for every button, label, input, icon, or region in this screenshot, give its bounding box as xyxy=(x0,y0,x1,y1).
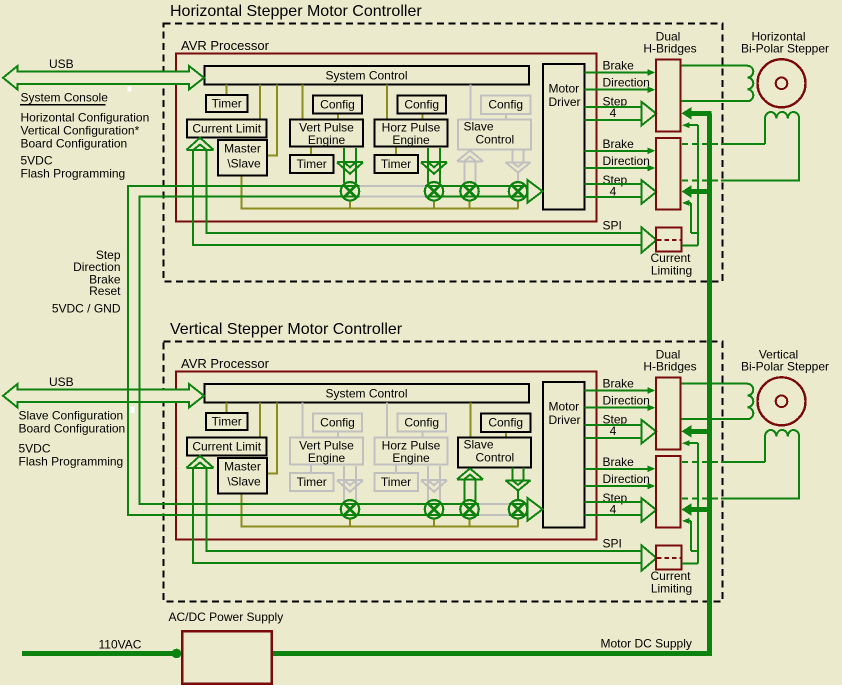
box Dual H-Bridge 2 xyxy=(656,456,681,528)
thick DC supply tee to H-Bridge 2 xyxy=(689,507,712,512)
svg-text:System Control: System Control xyxy=(325,387,407,401)
USB arrow xyxy=(3,66,204,90)
box AC/DC Power Supply xyxy=(182,631,272,684)
wire Config to Vert Pulse Engine xyxy=(337,114,339,120)
wire System Control to Timer xyxy=(226,403,228,414)
svg-text:Flash Programming: Flash Programming xyxy=(19,455,124,469)
arrow Vert Pulse Engine to mixer 1 xyxy=(343,148,345,183)
svg-text:Config: Config xyxy=(320,98,355,112)
svg-text:Flash Programming: Flash Programming xyxy=(21,167,126,181)
box Dual H-Bridge 1 xyxy=(656,378,681,450)
box Config (vert) xyxy=(313,96,362,114)
wire Direction xyxy=(585,407,650,409)
svg-text:Config: Config xyxy=(320,416,355,430)
svg-text:Current Limit: Current Limit xyxy=(192,122,261,136)
wire System Control to Horz Pulse Engine xyxy=(386,403,388,438)
wire System Control to Master/Slave xyxy=(267,403,277,474)
svg-text:Timer: Timer xyxy=(212,97,242,111)
wire Brake xyxy=(585,390,650,392)
svg-text:Slave: Slave xyxy=(464,438,494,452)
svg-text:AVR Processor: AVR Processor xyxy=(181,356,270,371)
artifact mark 2 xyxy=(130,407,135,414)
svg-text:Control: Control xyxy=(476,133,515,147)
thick DC supply tee to H-Bridge 1 xyxy=(689,111,712,116)
wire H-Bridge 1 to winding A top xyxy=(681,383,748,385)
svg-text:H-Bridges: H-Bridges xyxy=(643,42,696,56)
svg-text:5VDC / GND: 5VDC / GND xyxy=(52,302,121,316)
wire System Control to Master/Slave xyxy=(267,85,277,156)
svg-text:Engine: Engine xyxy=(308,133,346,147)
svg-text:5VDC: 5VDC xyxy=(21,154,53,168)
box Config (slave) xyxy=(481,414,531,432)
winding A coil xyxy=(747,384,753,419)
wire System Control to Vert Pulse Engine xyxy=(301,403,303,438)
box Config (horz) xyxy=(398,414,447,432)
arrow Horz Pulse Engine to mixer 2 xyxy=(427,466,429,501)
svg-text:Bi-Polar Stepper: Bi-Polar Stepper xyxy=(741,42,829,56)
svg-text:4: 4 xyxy=(610,106,617,120)
svg-text:Driver: Driver xyxy=(549,95,581,109)
arrow Vert Pulse Engine to mixer 1 xyxy=(343,466,345,501)
box Slave Control xyxy=(458,438,531,468)
box Slave Control xyxy=(458,120,531,150)
box Timer (horz pulse) xyxy=(375,473,419,491)
svg-text:Brake: Brake xyxy=(603,59,635,73)
current limiting feedback to H-Bridge 2 xyxy=(688,520,691,522)
arrow Step into H-Bridge xyxy=(642,420,657,443)
svg-text:4: 4 xyxy=(610,184,617,198)
svg-text:Engine: Engine xyxy=(308,451,346,465)
box Vert Pulse Engine xyxy=(290,120,363,147)
box Current Limiting xyxy=(656,546,682,570)
winding B coil xyxy=(765,430,799,498)
svg-text:Master: Master xyxy=(224,142,261,156)
arrow Horz Pulse Engine to mixer 2 xyxy=(427,148,429,183)
svg-text:Direction: Direction xyxy=(603,394,650,408)
arrow into Current Limit xyxy=(187,138,214,150)
wire mixer stub 4 xyxy=(517,518,519,527)
mixer node 2 xyxy=(425,182,443,200)
svg-text:Config: Config xyxy=(488,98,523,112)
mixer node 4 xyxy=(509,500,527,518)
wire mixer stub 3 xyxy=(469,200,471,209)
svg-text:110VAC: 110VAC xyxy=(99,638,142,652)
inter-controller bus wire B xyxy=(140,197,528,504)
arrow mixer bus into Motor Driver xyxy=(528,498,543,521)
box Horz Pulse Engine xyxy=(375,438,448,465)
svg-text:Current Limit: Current Limit xyxy=(192,440,261,454)
wire H-Bridge 1 to winding A top xyxy=(681,65,748,67)
svg-text:Vertical Stepper Motor Control: Vertical Stepper Motor Controller xyxy=(170,321,403,338)
svg-text:System Console: System Console xyxy=(21,91,109,105)
svg-text:Timer: Timer xyxy=(297,475,327,489)
svg-text:Board Configuration: Board Configuration xyxy=(19,422,126,436)
svg-text:Slave Configuration: Slave Configuration xyxy=(19,409,124,423)
svg-text:Config: Config xyxy=(404,416,439,430)
arrow Slave Control to mixer 4 xyxy=(511,468,513,481)
svg-text:Limiting: Limiting xyxy=(651,264,692,278)
svg-text:Master: Master xyxy=(224,460,261,474)
wire mixer stub 2 xyxy=(433,518,435,527)
svg-text:H-Bridges: H-Bridges xyxy=(643,360,696,374)
box Config (slave) xyxy=(481,96,531,114)
wire mixer stub 2 xyxy=(433,200,435,209)
wire Brake xyxy=(585,468,650,470)
AVR processor box xyxy=(176,372,597,540)
SPI bus from Current Limit xyxy=(193,150,642,245)
box Timer (vert pulse) xyxy=(290,155,334,173)
stepper motor body xyxy=(758,59,806,107)
arrow Step into H-Bridge xyxy=(642,180,657,203)
arrow mixer bus into Motor Driver xyxy=(528,180,543,203)
wire Brake xyxy=(585,150,650,152)
box Master/Slave xyxy=(218,140,267,176)
arrow mixer 3 to Slave Control xyxy=(463,161,465,183)
box Motor Driver xyxy=(543,382,585,528)
svg-text:Slave: Slave xyxy=(464,120,494,134)
svg-text:USB: USB xyxy=(49,57,74,71)
svg-text:AC/DC Power Supply: AC/DC Power Supply xyxy=(169,610,284,624)
svg-text:Motor: Motor xyxy=(549,82,580,96)
arrow SPI into Current Limiting xyxy=(642,228,657,253)
AVR processor box xyxy=(176,54,597,222)
mixer node 2 xyxy=(425,500,443,518)
svg-text:Vertical Configuration*: Vertical Configuration* xyxy=(21,124,140,138)
arrow mixer 3 to Slave Control xyxy=(463,479,465,501)
wire Step bus xyxy=(585,501,642,503)
svg-text:\Slave: \Slave xyxy=(227,475,261,489)
svg-text:Direction: Direction xyxy=(603,154,650,168)
current limiting feedback to H-Bridge 2 xyxy=(688,202,691,204)
controller dashed boundary box xyxy=(164,342,723,602)
box Config (horz) xyxy=(398,96,447,114)
svg-text:\Slave: \Slave xyxy=(227,157,261,171)
svg-text:Config: Config xyxy=(488,416,523,430)
wire 110VAC xyxy=(22,651,177,656)
svg-text:Engine: Engine xyxy=(392,451,430,465)
box Current Limit xyxy=(187,120,267,138)
svg-text:Direction: Direction xyxy=(603,76,650,90)
wire Brake xyxy=(585,72,650,74)
box Current Limit xyxy=(187,438,267,456)
svg-text:Reset: Reset xyxy=(89,284,121,298)
mixer node 1 xyxy=(341,500,359,518)
wire Config to Slave Control xyxy=(505,432,507,438)
wire Config to Vert Pulse Engine xyxy=(337,432,339,438)
svg-text:4: 4 xyxy=(610,502,617,516)
svg-text:Limiting: Limiting xyxy=(651,582,692,596)
svg-text:Horizontal Configuration: Horizontal Configuration xyxy=(21,111,150,125)
svg-text:Driver: Driver xyxy=(549,413,581,427)
wire System Control to Slave Control xyxy=(470,403,472,438)
svg-text:SPI: SPI xyxy=(603,537,622,551)
box System Control xyxy=(205,384,530,403)
svg-text:Timer: Timer xyxy=(297,157,327,171)
wire mixer stub 4 xyxy=(517,200,519,209)
controller dashed boundary box xyxy=(164,24,723,282)
svg-text:5VDC: 5VDC xyxy=(19,442,51,456)
SPI bus from Current Limit xyxy=(193,468,642,563)
wire Master/Slave to mixer bus xyxy=(242,494,519,527)
svg-text:Motor DC Supply: Motor DC Supply xyxy=(601,637,692,651)
arrow SPI into Current Limiting xyxy=(642,546,657,571)
svg-text:Brake: Brake xyxy=(603,137,635,151)
wire System Control to Current Limit xyxy=(259,85,261,120)
wire H-Bridge 1 to winding A bottom xyxy=(681,418,748,420)
box Dual H-Bridge 1 xyxy=(656,60,681,132)
svg-text:Brake: Brake xyxy=(603,455,635,469)
svg-text:Control: Control xyxy=(476,451,515,465)
wire Vert Pulse Engine to Timer xyxy=(310,147,312,156)
thick DC supply tee to H-Bridge 1 xyxy=(689,429,712,434)
wire Step bus xyxy=(585,106,642,108)
current limiting feedback to H-Bridge 1 xyxy=(688,442,698,444)
svg-text:Config: Config xyxy=(404,98,439,112)
wire H-Bridge 2 to winding B right xyxy=(682,179,721,181)
box Vert Pulse Engine xyxy=(290,438,363,465)
mixer node 3 xyxy=(460,182,478,200)
wire System Control to Slave Control xyxy=(470,85,472,120)
wire System Control to Horz Pulse Engine xyxy=(386,85,388,120)
svg-text:Timer: Timer xyxy=(381,157,411,171)
mixer node 3 xyxy=(460,500,478,518)
svg-text:SPI: SPI xyxy=(603,219,622,233)
arrow Slave Control to mixer 4 xyxy=(511,150,513,163)
svg-text:Direction: Direction xyxy=(603,472,650,486)
svg-text:USB: USB xyxy=(49,375,74,389)
wire H-Bridge 1 to winding A bottom xyxy=(681,100,748,102)
wire Config to Slave Control xyxy=(505,114,507,120)
mixer node 4 xyxy=(509,182,527,200)
wire mixer stub 3 xyxy=(469,518,471,527)
svg-text:Brake: Brake xyxy=(603,377,635,391)
inactive bus segment (horizontal ctrl) xyxy=(360,185,425,187)
wire Config to Horz Pulse Engine xyxy=(422,432,424,438)
arrow into Current Limit xyxy=(187,456,214,468)
svg-text:Engine: Engine xyxy=(392,133,430,147)
svg-text:System Control: System Control xyxy=(325,69,407,83)
wire H-Bridge 2 to winding B left xyxy=(682,143,721,145)
wire Master/Slave to mixer bus xyxy=(242,176,519,209)
thick Motor DC Supply line xyxy=(272,113,710,653)
svg-text:Bi-Polar Stepper: Bi-Polar Stepper xyxy=(741,360,829,374)
wire Step bus xyxy=(585,424,642,426)
USB arrow xyxy=(3,384,204,408)
thick DC supply tee to H-Bridge 2 xyxy=(689,189,712,194)
wire H-Bridge 2 to winding B left xyxy=(682,461,721,463)
box Timer (system) xyxy=(206,413,248,430)
svg-text:AVR Processor: AVR Processor xyxy=(181,38,270,53)
winding B coil xyxy=(765,112,799,180)
wire Step bus xyxy=(585,183,642,185)
winding A coil xyxy=(747,66,753,102)
inactive bus segment (vertical ctrl) xyxy=(479,503,509,505)
current limiting feedback to H-Bridge 1 xyxy=(688,124,698,126)
wire Vert Pulse Engine to Timer xyxy=(310,465,312,474)
wire Direction xyxy=(585,167,650,169)
box Dual H-Bridge 2 xyxy=(656,138,681,210)
svg-text:4: 4 xyxy=(610,424,617,438)
wire System Control to Vert Pulse Engine xyxy=(301,85,303,120)
svg-text:Motor: Motor xyxy=(549,400,580,414)
box Motor Driver xyxy=(543,64,585,210)
wire Direction xyxy=(585,89,650,91)
box Horz Pulse Engine xyxy=(375,120,448,147)
wire Direction xyxy=(585,485,650,487)
box Config (vert) xyxy=(313,414,362,432)
arrow Step into H-Bridge xyxy=(642,498,657,521)
box System Control xyxy=(205,66,530,85)
mixer node 1 xyxy=(341,182,359,200)
wire mixer stub 1 xyxy=(349,518,351,527)
wire Horz Pulse Engine to Timer xyxy=(395,465,397,474)
svg-text:Timer: Timer xyxy=(212,415,242,429)
svg-text:Timer: Timer xyxy=(381,475,411,489)
arrow Step into H-Bridge xyxy=(642,102,657,125)
box Current Limiting xyxy=(656,228,682,252)
inter-controller bus wire A xyxy=(128,186,527,515)
box Timer (horz pulse) xyxy=(375,155,419,173)
wire mixer stub 1 xyxy=(349,200,351,209)
wire Horz Pulse Engine to Timer xyxy=(395,147,397,156)
wire Config to Horz Pulse Engine xyxy=(422,114,424,120)
wire System Control to Current Limit xyxy=(259,403,261,438)
wire H-Bridge 2 to winding B right xyxy=(682,497,721,499)
svg-text:Horizontal Stepper Motor Contr: Horizontal Stepper Motor Controller xyxy=(170,3,422,20)
svg-text:Board Configuration: Board Configuration xyxy=(21,137,128,151)
box Timer (vert pulse) xyxy=(290,473,334,491)
box Master/Slave xyxy=(218,458,267,494)
box Timer (system) xyxy=(206,95,248,112)
stepper motor body xyxy=(758,377,806,425)
artifact mark 1 xyxy=(128,87,132,92)
wire System Control to Timer xyxy=(226,85,228,96)
